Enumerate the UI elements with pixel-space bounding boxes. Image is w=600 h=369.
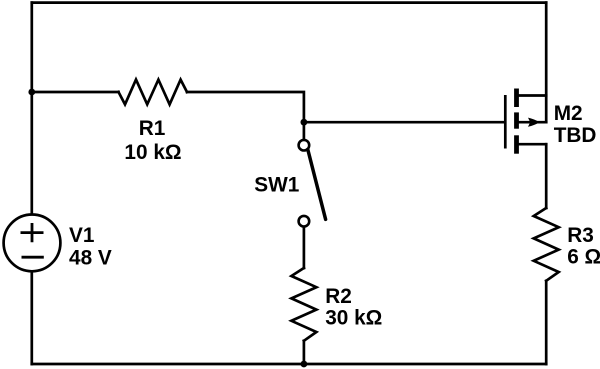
wire: left rail from V1 down to bottom-left corner — [30, 271, 33, 364]
svg-text:10 kΩ: 10 kΩ — [124, 141, 181, 164]
M2 channel bar (body) — [514, 112, 519, 128]
wire: R3 bottom lead to bottom-right corner — [545, 281, 548, 364]
junction node A (left rail / R1 tee) — [28, 89, 35, 96]
wire: left rail from node A down to V1 — [30, 92, 33, 215]
M2 channel bar (drain) — [514, 89, 519, 108]
svg-text:TBD: TBD — [554, 124, 597, 147]
M2 body arrow — [528, 118, 540, 127]
junction node C (R2 / bottom rail tee) — [301, 361, 308, 368]
svg-text:30 kΩ: 30 kΩ — [325, 307, 382, 330]
svg-text:M2: M2 — [554, 102, 583, 125]
wire: M2 source corner down to R3 — [545, 144, 548, 208]
resistor R2 — [291, 268, 316, 341]
wire: gate net from node B to M2 gate — [304, 121, 505, 124]
svg-text:R3: R3 — [567, 224, 594, 247]
M2 source lead — [517, 143, 547, 146]
wire: bottom rail — [32, 363, 546, 366]
resistor R1 — [119, 80, 188, 105]
wire: SW1 bottom terminal down to R2 — [303, 227, 306, 268]
wire: left rail upper (node A up to top-left corner) — [30, 3, 33, 92]
svg-text:V1: V1 — [69, 224, 94, 247]
wire: node B down to SW1 top terminal — [303, 122, 306, 139]
svg-text:R2: R2 — [325, 285, 352, 308]
svg-text:6 Ω: 6 Ω — [567, 246, 600, 269]
wire: R1 right lead down to node B — [187, 92, 304, 122]
wire: top rail — [32, 1, 546, 4]
voltage source V1 — [4, 215, 61, 272]
svg-text:SW1: SW1 — [254, 174, 299, 197]
junction node B (R1 / gate / SW1 tee) — [301, 119, 308, 126]
M2 body lead — [519, 121, 546, 124]
mosfet M2 — [505, 89, 546, 154]
wire: R1 left lead from node A — [32, 91, 119, 94]
wire: R2 bottom lead to node C on bottom rail — [303, 341, 306, 364]
wire: right rail upper, top-right corner down to M2 drain/body — [545, 3, 548, 123]
M2 channel bar (source) — [514, 135, 519, 153]
svg-text:R1: R1 — [139, 117, 166, 140]
switch SW1 — [299, 140, 326, 227]
M2 drain lead — [517, 94, 547, 97]
svg-text:48 V: 48 V — [69, 247, 112, 270]
M2 gate bar — [504, 95, 507, 149]
resistor R3 — [534, 208, 559, 281]
